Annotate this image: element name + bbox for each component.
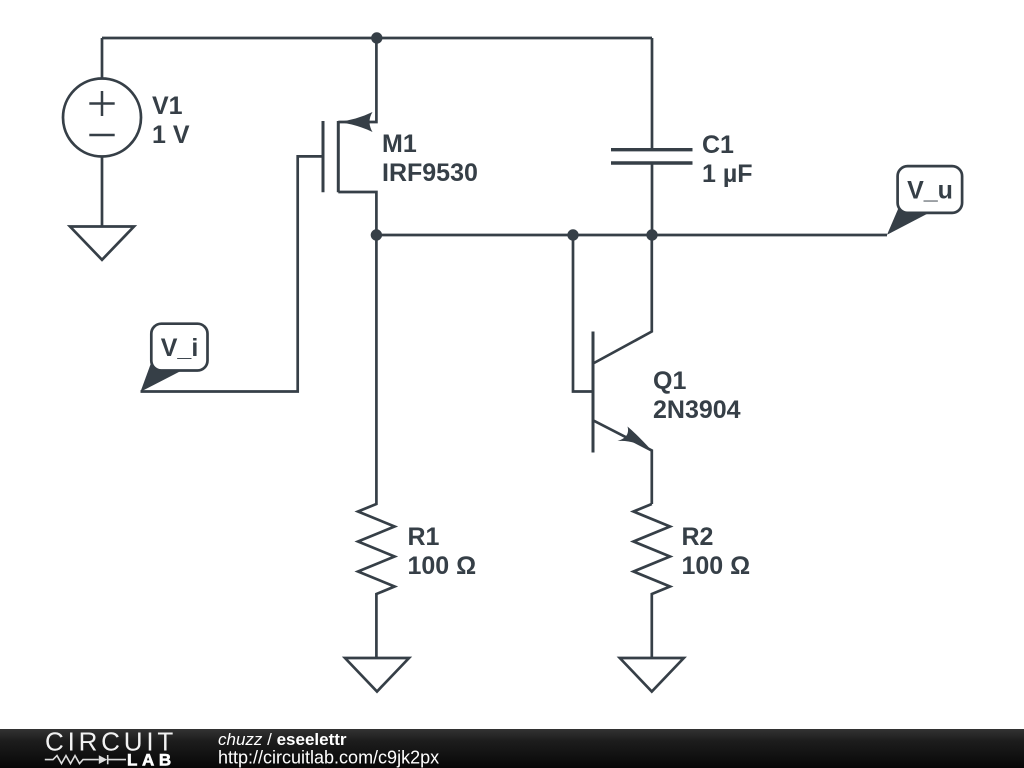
svg-text:C1: C1	[702, 131, 734, 159]
svg-text:LAB: LAB	[127, 750, 176, 768]
svg-text:1 V: 1 V	[152, 121, 190, 149]
svg-text:M1: M1	[382, 130, 417, 158]
svg-text:100 Ω: 100 Ω	[408, 552, 477, 580]
svg-text:R1: R1	[408, 523, 440, 551]
svg-text:V_u: V_u	[907, 177, 953, 205]
svg-text:R2: R2	[682, 523, 714, 551]
svg-text:1 µF: 1 µF	[702, 160, 753, 188]
svg-text:IRF9530: IRF9530	[382, 159, 478, 187]
svg-text:100 Ω: 100 Ω	[682, 552, 751, 580]
svg-text:Q1: Q1	[653, 367, 686, 395]
svg-text:chuzz / eseelettr: chuzz / eseelettr	[218, 730, 347, 749]
svg-text:V1: V1	[152, 92, 183, 120]
svg-text:V_i: V_i	[161, 334, 199, 362]
svg-text:2N3904: 2N3904	[653, 396, 741, 424]
svg-text:http://circuitlab.com/c9jk2px: http://circuitlab.com/c9jk2px	[218, 748, 439, 768]
